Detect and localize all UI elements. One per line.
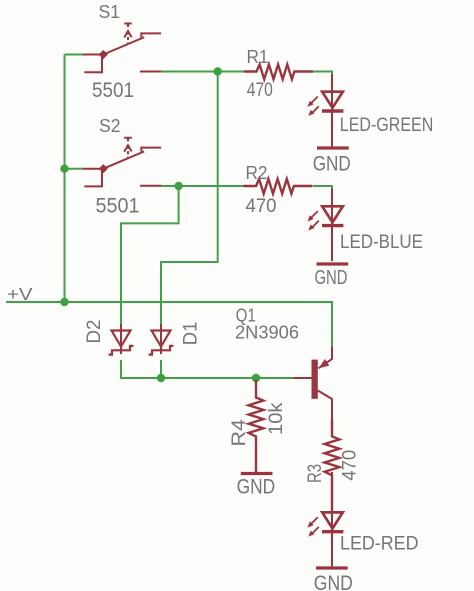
junction: R4 at base bus	[252, 374, 260, 382]
svg-text:470: 470	[340, 450, 361, 481]
svg-text:GND: GND	[237, 476, 276, 499]
svg-text:LED-GREEN: LED-GREEN	[340, 115, 434, 136]
wire: S2 output to R2	[162, 185, 246, 187]
svg-text:GND: GND	[315, 266, 348, 289]
wire: left vertical rail from S1 down to +V	[65, 55, 84, 303]
base pin	[293, 377, 312, 379]
svg-text:5501: 5501	[92, 79, 134, 102]
transistor Q1	[293, 347, 332, 436]
svg-text:S2: S2	[99, 115, 121, 136]
svg-text:LED-RED: LED-RED	[340, 533, 419, 554]
svg-text:R1: R1	[247, 47, 269, 67]
svg-text:+V: +V	[7, 284, 33, 304]
junction: +V rail	[60, 298, 68, 306]
wire: S1 output to R1	[162, 71, 245, 73]
diode D2	[109, 324, 134, 355]
svg-text:D1: D1	[181, 322, 202, 346]
LED-RED	[307, 495, 343, 568]
svg-text:5501: 5501	[96, 194, 140, 217]
resistor R3	[325, 419, 340, 511]
svg-text:R3: R3	[305, 464, 326, 483]
LED-BLUE	[307, 189, 343, 262]
wire: S1 output branch down-left to D1	[161, 72, 218, 327]
wire: R2 to LED-BLUE	[313, 186, 332, 190]
ground (LED-BLUE)	[317, 263, 349, 265]
junction: S2 out	[174, 182, 182, 190]
ground (LED-RED)	[316, 567, 348, 569]
resistor R2	[244, 179, 313, 194]
svg-text:D2: D2	[84, 320, 105, 344]
collector	[318, 391, 332, 437]
LED-GREEN	[307, 74, 343, 147]
resistor R4	[249, 380, 264, 472]
svg-text:10k: 10k	[266, 402, 287, 435]
resistor R1	[244, 64, 313, 79]
ground (R4)	[241, 473, 273, 475]
svg-text:LED-BLUE: LED-BLUE	[340, 232, 423, 253]
junction: S1 out	[214, 67, 222, 75]
svg-text:470: 470	[246, 196, 277, 217]
svg-text:GND: GND	[314, 572, 353, 591]
base bar	[312, 360, 318, 399]
ground (LED-GREEN)	[317, 147, 349, 149]
svg-text:470: 470	[247, 80, 273, 101]
wire: S2 output branch down-left to D2	[121, 186, 179, 326]
wire: R3 to LED-RED	[331, 472, 333, 495]
svg-text:2N3906: 2N3906	[235, 322, 299, 342]
wire: R1 to LED-GREEN	[313, 72, 332, 76]
junction: D1 cathode at base bus	[157, 374, 165, 382]
switch S2	[83, 138, 162, 187]
junction: left rail at S2	[60, 165, 68, 173]
wire: +V rail to Q1 emitter	[6, 302, 332, 347]
svg-text:S1: S1	[99, 1, 121, 22]
svg-text:R2: R2	[246, 163, 268, 183]
switch S1	[83, 24, 162, 73]
emitter	[319, 347, 333, 368]
svg-text:GND: GND	[313, 153, 351, 176]
diode D1	[149, 324, 174, 355]
wire: S2 tap from left rail	[65, 168, 84, 170]
wire: diode cathode bus to Q1 base	[121, 360, 293, 378]
svg-text:R4: R4	[229, 419, 250, 447]
